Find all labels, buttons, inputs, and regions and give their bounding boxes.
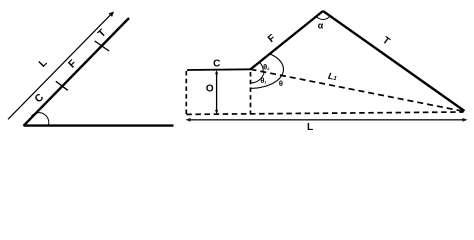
svg-text:θ: θ (279, 79, 283, 88)
svg-text:C: C (213, 59, 220, 70)
svg-text:α: α (318, 21, 324, 31)
svg-text:O: O (206, 84, 214, 95)
svg-text:L: L (307, 122, 313, 133)
